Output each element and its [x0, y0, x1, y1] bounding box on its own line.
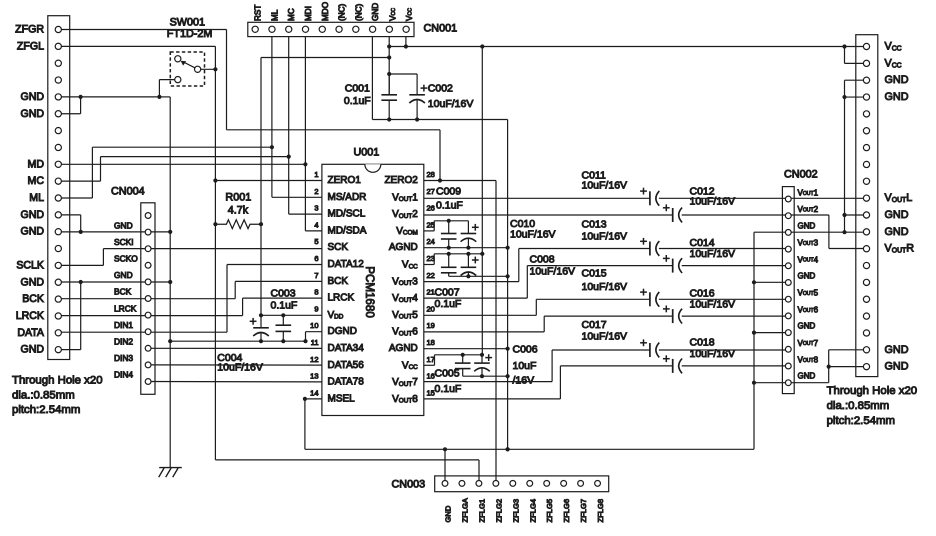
svg-text:ZFGL: ZFGL — [17, 40, 44, 52]
svg-text:3: 3 — [314, 204, 318, 213]
svg-text:GND: GND — [798, 221, 816, 230]
svg-text:C009: C009 — [436, 186, 461, 198]
svg-text:MDI: MDI — [304, 6, 313, 21]
svg-text:SW001: SW001 — [170, 17, 205, 29]
svg-text:GND: GND — [798, 272, 816, 281]
svg-text:C008: C008 — [530, 254, 555, 266]
svg-text:MC: MC — [287, 8, 296, 21]
svg-text:R001: R001 — [225, 191, 251, 203]
svg-text:DGND: DGND — [328, 326, 357, 337]
svg-text:5: 5 — [314, 237, 318, 246]
svg-text:SCKI: SCKI — [114, 237, 134, 247]
svg-text:MDO: MDO — [321, 2, 330, 21]
svg-text:ZFLG2: ZFLG2 — [494, 499, 503, 523]
svg-text:10uF/16V: 10uF/16V — [690, 248, 736, 260]
svg-text:GND: GND — [885, 344, 909, 356]
svg-text:26: 26 — [427, 204, 435, 213]
svg-text:GND: GND — [20, 108, 44, 120]
svg-text:ZERO2: ZERO2 — [384, 175, 418, 186]
svg-text:DATA56: DATA56 — [328, 360, 365, 371]
svg-text:C014: C014 — [690, 237, 715, 249]
svg-text:CN002: CN002 — [784, 169, 818, 181]
svg-text:FT1D-2M: FT1D-2M — [167, 28, 213, 40]
svg-text:DATA78: DATA78 — [328, 377, 365, 388]
svg-text:MS/ADR: MS/ADR — [328, 192, 367, 203]
svg-text:C007: C007 — [435, 286, 460, 298]
svg-text:DATA12: DATA12 — [328, 259, 365, 270]
svg-text:/16V: /16V — [513, 375, 535, 387]
svg-text:0.1uF: 0.1uF — [436, 200, 463, 212]
svg-text:C017: C017 — [582, 319, 607, 331]
svg-text:GND: GND — [885, 361, 909, 373]
svg-text:PCM1680: PCM1680 — [363, 266, 376, 318]
svg-text:8: 8 — [314, 288, 318, 297]
svg-text:12: 12 — [310, 355, 318, 364]
svg-text:SCLK: SCLK — [16, 259, 44, 271]
svg-text:ZFLG5: ZFLG5 — [545, 499, 554, 523]
svg-text:ZFLGA: ZFLGA — [460, 497, 469, 522]
svg-text:GND: GND — [114, 270, 133, 280]
svg-text:4: 4 — [314, 220, 318, 229]
svg-text:10uF/16V: 10uF/16V — [582, 281, 628, 293]
svg-text:ZFLG7: ZFLG7 — [579, 499, 588, 523]
svg-text:MD/SCL: MD/SCL — [328, 209, 366, 220]
svg-text:pitch:2.54mm: pitch:2.54mm — [12, 404, 80, 416]
svg-text:0.1uF: 0.1uF — [435, 383, 462, 395]
svg-text:BCK: BCK — [22, 293, 44, 305]
svg-text:4.7k: 4.7k — [228, 204, 249, 216]
svg-text:2: 2 — [314, 187, 318, 196]
svg-text:(NC): (NC) — [354, 3, 363, 21]
svg-text:C005: C005 — [435, 368, 460, 380]
svg-text:ZFLG6: ZFLG6 — [562, 499, 571, 523]
svg-text:0.1uF: 0.1uF — [435, 298, 462, 310]
svg-text:10uF/16V: 10uF/16V — [690, 195, 736, 207]
svg-text:GND: GND — [798, 322, 816, 331]
svg-text:ZFLG4: ZFLG4 — [528, 499, 537, 523]
svg-text:pitch:2.54mm: pitch:2.54mm — [827, 415, 895, 427]
svg-text:10uF/16V: 10uF/16V — [582, 180, 628, 192]
svg-text:LRCK: LRCK — [114, 303, 137, 313]
svg-text:AGND: AGND — [389, 242, 418, 253]
svg-text:BCK: BCK — [328, 276, 349, 287]
svg-text:DIN2: DIN2 — [114, 337, 133, 347]
svg-text:18: 18 — [427, 338, 435, 347]
svg-text:11: 11 — [311, 338, 319, 347]
svg-text:0.1uF: 0.1uF — [271, 300, 298, 312]
svg-text:DATA: DATA — [17, 327, 45, 339]
svg-text:GND: GND — [885, 226, 909, 238]
svg-text:DIN3: DIN3 — [114, 353, 133, 363]
svg-text:GND: GND — [20, 276, 44, 288]
svg-text:GND: GND — [885, 74, 909, 86]
svg-text:C006: C006 — [513, 344, 538, 356]
svg-text:GND: GND — [114, 220, 133, 230]
svg-text:23: 23 — [427, 254, 435, 263]
svg-text:9: 9 — [314, 304, 318, 313]
svg-text:GND: GND — [885, 209, 909, 221]
svg-text:19: 19 — [427, 321, 435, 330]
svg-text:10uF/16V: 10uF/16V — [690, 299, 736, 311]
svg-text:ZFGR: ZFGR — [15, 24, 44, 36]
svg-text:CN004: CN004 — [111, 186, 145, 198]
svg-text:ZFLG3: ZFLG3 — [511, 499, 520, 523]
svg-text:10uF/16V: 10uF/16V — [428, 98, 474, 110]
svg-text:25: 25 — [427, 220, 435, 229]
svg-text:GND: GND — [20, 226, 44, 238]
svg-text:MD: MD — [28, 158, 45, 170]
svg-text:GND: GND — [20, 344, 44, 356]
svg-text:10uF/16V: 10uF/16V — [582, 230, 628, 242]
svg-text:C013: C013 — [582, 218, 607, 230]
svg-text:ML: ML — [270, 9, 279, 21]
svg-text:7: 7 — [314, 271, 318, 280]
svg-text:10uF/16V: 10uF/16V — [530, 266, 576, 278]
svg-text:SCKO: SCKO — [114, 254, 138, 264]
svg-text:GND: GND — [798, 372, 816, 381]
svg-text:AGND: AGND — [389, 343, 418, 354]
svg-text:13: 13 — [310, 372, 318, 381]
svg-text:MC: MC — [28, 175, 45, 187]
svg-text:10uF: 10uF — [513, 360, 537, 372]
svg-text:dia.:0.85mm: dia.:0.85mm — [827, 400, 890, 412]
svg-text:RST: RST — [254, 5, 263, 21]
svg-text:ML: ML — [29, 192, 44, 204]
svg-text:GND: GND — [371, 3, 380, 21]
svg-text:10: 10 — [310, 321, 318, 330]
svg-text:Through Hole x20: Through Hole x20 — [827, 385, 918, 397]
svg-text:28: 28 — [427, 170, 435, 179]
svg-text:10uF/16V: 10uF/16V — [217, 362, 263, 374]
svg-text:22: 22 — [427, 271, 435, 280]
svg-text:10uF/16V: 10uF/16V — [690, 348, 736, 360]
svg-text:GND: GND — [20, 91, 44, 103]
svg-text:CN001: CN001 — [424, 23, 458, 35]
svg-text:dia.:0.85mm: dia.:0.85mm — [12, 390, 75, 402]
svg-text:17: 17 — [427, 355, 435, 364]
svg-text:10uF/16V: 10uF/16V — [510, 229, 556, 241]
svg-text:DIN4: DIN4 — [114, 370, 133, 380]
svg-text:10uF/16V: 10uF/16V — [582, 331, 628, 343]
svg-text:MSEL: MSEL — [328, 393, 356, 404]
svg-text:C015: C015 — [582, 268, 607, 280]
svg-text:0.1uF: 0.1uF — [344, 95, 371, 107]
svg-text:1: 1 — [314, 170, 318, 179]
svg-text:LRCK: LRCK — [16, 310, 44, 322]
svg-text:6: 6 — [314, 254, 318, 263]
svg-text:MD/SDA: MD/SDA — [328, 225, 367, 236]
svg-text:LRCK: LRCK — [328, 293, 355, 304]
svg-text:27: 27 — [427, 187, 435, 196]
svg-text:C002: C002 — [428, 83, 453, 95]
svg-text:CN003: CN003 — [392, 479, 426, 491]
svg-text:BCK: BCK — [114, 287, 132, 297]
svg-text:ZERO1: ZERO1 — [328, 175, 362, 186]
svg-text:SCK: SCK — [328, 242, 349, 253]
svg-text:GND: GND — [444, 505, 453, 522]
svg-text:ZFLG8: ZFLG8 — [596, 499, 605, 523]
svg-text:Through Hole x20: Through Hole x20 — [12, 375, 103, 387]
svg-text:(NC): (NC) — [338, 3, 347, 21]
svg-text:GND: GND — [20, 209, 44, 221]
svg-text:U001: U001 — [354, 146, 380, 158]
svg-text:DIN1: DIN1 — [114, 320, 133, 330]
svg-text:14: 14 — [310, 388, 318, 397]
svg-text:DATA34: DATA34 — [328, 343, 365, 354]
svg-text:C003: C003 — [271, 288, 296, 300]
svg-text:C001: C001 — [345, 83, 370, 95]
svg-text:ZFLG1: ZFLG1 — [477, 499, 486, 523]
svg-text:GND: GND — [885, 91, 909, 103]
svg-text:24: 24 — [427, 237, 435, 246]
